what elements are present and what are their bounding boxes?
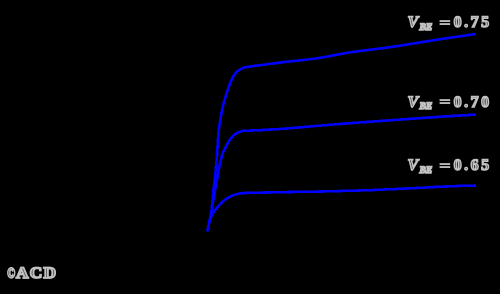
curve V_BE=0.70: [207, 115, 476, 232]
curve V_BE=0.65: [207, 186, 476, 232]
label V_BE = 0.65: [408, 158, 492, 176]
copyright ACD: [7, 266, 55, 282]
curve V_BE=0.75: [207, 34, 476, 231]
label V_BE = 0.70: [408, 95, 492, 113]
label V_BE = 0.75: [408, 15, 492, 33]
